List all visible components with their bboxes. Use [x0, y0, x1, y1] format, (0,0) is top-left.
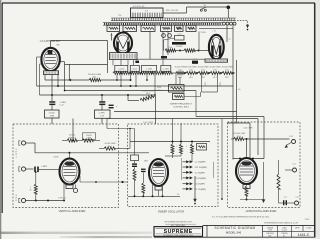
svg-text:5Y3: 5Y3: [205, 82, 207, 85]
V4 stem: [66, 185, 73, 189]
svg-text:C-2: C-2: [194, 58, 197, 60]
svg-text:50,000 OHM: 50,000 OHM: [175, 67, 186, 69]
wire y28.7: [199, 28, 233, 30]
wire between box1 box2: [80, 181, 128, 183]
svg-text:C-3: C-3: [284, 197, 287, 199]
svg-text:50,000 OHM: 50,000 OHM: [105, 143, 116, 145]
tube V6 6L6: [236, 158, 257, 184]
wire P1 down: [51, 118, 53, 124]
svg-text:CHECKED: CHECKED: [266, 233, 275, 235]
resistor R14: [34, 184, 37, 194]
svg-text:C-19: C-19: [100, 116, 104, 118]
sweep control box B1: [169, 85, 185, 93]
wire J1: [26, 142, 35, 144]
border frame top: [2, 2, 315, 4]
wire drops into resistor row: [172, 119, 174, 145]
wire vert x233: [232, 25, 234, 158]
ground G2: [263, 162, 265, 200]
jack circle below V4: [73, 188, 77, 192]
wire R3 right: [154, 95, 156, 97]
scan bottom streak 1: [0, 232, 152, 234]
scan left dark edge: [0, 0, 1, 239]
wire y128.5: [107, 128, 135, 130]
antenna arrowhead: [246, 25, 249, 29]
capacitor C20: [34, 167, 36, 173]
toggle switch SW1: [200, 9, 202, 11]
svg-text:C7 25(MF): C7 25(MF): [195, 172, 205, 174]
dashed box vertical amplifier: [13, 124, 119, 208]
svg-text:SWEEP FREQUENCY: SWEEP FREQUENCY: [170, 103, 193, 105]
transformer T1: [131, 8, 164, 18]
svg-text:1,500: 1,500: [168, 47, 173, 49]
wire y123: [227, 122, 250, 124]
wire to R3: [128, 100, 139, 102]
resistor R16: [180, 144, 183, 154]
wire V1 left pin2 to bus: [40, 63, 43, 65]
trimmer box TB3: [141, 25, 155, 31]
svg-text:2: 2: [176, 146, 177, 148]
svg-text:1 W.: 1 W.: [201, 69, 205, 71]
box C-15: [175, 36, 185, 41]
wire v x107.5: [107, 41, 109, 74]
title block: [154, 225, 315, 237]
capacitor C28: [141, 169, 146, 170]
svg-text:HORIZONTAL AMPLIFIER: HORIZONTAL AMPLIFIER: [246, 209, 277, 213]
capacitor C31: [283, 200, 284, 205]
binding post J1: [21, 141, 25, 145]
wires under resistor row: [172, 154, 174, 159]
wire V5 stem down: [158, 190, 160, 196]
svg-text:25,000 OHM: 25,000 OHM: [186, 67, 197, 69]
wire y116: [196, 116, 264, 118]
svg-text:OHM: OHM: [49, 115, 54, 117]
V5 stem: [155, 186, 162, 190]
resistor R12 boxed label: [83, 133, 96, 140]
svg-text:INSTRUMENTS CORP. GREENWOOD, M: INSTRUMENTS CORP. GREENWOOD, MISS.: [163, 235, 194, 237]
svg-text:PRI.: PRI.: [118, 15, 122, 17]
scan bottom streak 2: [60, 236, 152, 238]
svg-text:+ 75: + 75: [212, 31, 216, 33]
wire transformer to switch: [163, 12, 187, 14]
svg-text:5Y3G: 5Y3G: [200, 32, 206, 34]
V6 stem: [243, 185, 250, 189]
resistor R3 diagonal: [140, 95, 154, 102]
trimmer box TB4: [161, 25, 172, 31]
wire to box C-15: [164, 38, 175, 40]
wire y118: [108, 118, 258, 120]
svg-text:C-30 1 MFD: C-30 1 MFD: [243, 128, 253, 130]
wire J3: [26, 200, 64, 202]
svg-text:C11 250(MF): C11 250(MF): [195, 167, 207, 169]
svg-text:W-9: W-9: [189, 77, 192, 79]
wire drops under left divider: [116, 75, 118, 81]
svg-text:SWEEP OSCILLATOR: SWEEP OSCILLATOR: [158, 209, 184, 213]
wire v x69.3: [68, 64, 70, 79]
resistor R17: [191, 144, 194, 154]
junction dots on buses: [51, 94, 53, 96]
wire drop x180: [179, 77, 181, 85]
wire V1 pin7 down: [57, 75, 59, 86]
tube V5 884: [149, 159, 168, 186]
svg-text:CONTROL SW-2: CONTROL SW-2: [173, 107, 190, 109]
resistor R7: [186, 67, 197, 79]
terminal strip bar A: [111, 18, 236, 21]
wire J2 to C20: [26, 168, 34, 170]
wires saddle to divider: [112, 60, 114, 66]
binding post J3: [21, 198, 25, 202]
svg-text:C- 250(MF): C- 250(MF): [195, 162, 206, 164]
wire y64.4 to V2 column: [65, 63, 108, 65]
title block dividers: [207, 225, 315, 237]
component label boxes under V2: [115, 65, 128, 71]
wire bus y90.5: [65, 90, 196, 92]
trimmer box TB2: [123, 25, 137, 31]
capacitor C27: [132, 163, 137, 164]
boxed resistor R18: [197, 144, 207, 151]
wire test point right vertical: [213, 162, 215, 178]
svg-text:4 MEG: 4 MEG: [156, 90, 162, 92]
svg-text:C-1463: C-1463: [118, 69, 124, 71]
dashed box horizontal amplifier: [228, 122, 301, 208]
resistor R23: [278, 160, 280, 174]
svg-text:C-24 .1 MFD: C-24 .1 MFD: [143, 122, 154, 124]
V1 saddle: [44, 71, 59, 75]
capacitor C12: [49, 95, 66, 110]
dashed box sweep oscillator: [128, 124, 219, 207]
wire y111: [114, 111, 237, 113]
resistor R21: [231, 138, 234, 140]
tube V2: [114, 33, 132, 54]
svg-text:17-41: 17-41: [305, 219, 310, 221]
svg-text:C-12: C-12: [60, 105, 64, 107]
svg-text:S-1: S-1: [204, 5, 207, 7]
wire V2 top-left stub: [111, 33, 113, 41]
svg-text:10,000 OHM: 10,000 OHM: [198, 67, 209, 69]
V5 top element: [153, 162, 163, 166]
svg-text:6 PLUG: 6 PLUG: [58, 198, 66, 200]
small caps column x163: [162, 31, 164, 65]
test point arrow list: [183, 160, 208, 191]
bus wire y73 right: [172, 72, 176, 74]
pot box P2: [95, 110, 111, 118]
wire y158.5: [233, 158, 264, 160]
svg-text:W-12: W-12: [133, 69, 137, 71]
svg-text:1 W.: 1 W.: [178, 69, 182, 71]
svg-text:W-7: W-7: [213, 77, 216, 79]
pot box P1: [45, 110, 60, 118]
wire x128: [127, 95, 129, 101]
wire P2 down: [101, 118, 103, 124]
sweep control box B2: [173, 94, 185, 100]
svg-text:50,000: 50,000: [86, 135, 92, 137]
svg-text:.5 MFD: .5 MFD: [41, 166, 48, 168]
wire V1 right L: [60, 61, 65, 63]
wires trimmer to V2: [118, 31, 120, 33]
connector plug circles: [223, 22, 237, 25]
supreme logo box: [154, 227, 203, 237]
svg-text:C-8: C-8: [295, 197, 298, 199]
wire V1 left pin to bus: [37, 56, 43, 58]
svg-text:7-1: 7-1: [177, 194, 180, 196]
trimmer box TB1: [107, 25, 120, 31]
wire drop x176: [175, 73, 177, 85]
wire v x107: [106, 119, 108, 129]
U loop wires: [201, 73, 203, 92]
capacitor C13: [99, 95, 105, 110]
tube V3 saddle: [205, 59, 228, 62]
tube V2 saddle: [110, 53, 138, 60]
svg-text:VERTICAL AMPLIFIER: VERTICAL AMPLIFIER: [59, 209, 86, 213]
svg-text:75: 75: [229, 39, 231, 41]
resistor R9: [210, 67, 221, 79]
svg-text:THE SUPREME INSTRUMENTS CORP: THE SUPREME INSTRUMENTS CORP: [164, 222, 192, 224]
svg-text:J.F.M: J.F.M: [268, 230, 272, 232]
wire vert x264: [263, 117, 265, 159]
svg-text:SUPREME: SUPREME: [164, 229, 193, 235]
svg-text:25,000 OHM: 25,000 OHM: [142, 91, 154, 93]
wire long y152.5: [35, 152, 149, 154]
wire V1 pin5 down: [51, 75, 53, 95]
dashed lead to antenna arrow: [237, 20, 248, 25]
capacitor C14: [109, 105, 114, 106]
svg-text:8-4-39: 8-4-39: [282, 230, 287, 232]
wire V6 top: [246, 139, 248, 158]
svg-text:1441-C: 1441-C: [298, 233, 310, 237]
svg-text:C-1463: C-1463: [146, 69, 152, 71]
wire between box2 box3: [221, 119, 223, 200]
wire bus y95: [40, 94, 156, 96]
wire V4 top stub: [69, 153, 71, 159]
border frame left: [1, 3, 3, 213]
svg-text:50,000 OHM: 50,000 OHM: [210, 67, 221, 69]
resistor R8: [198, 67, 209, 79]
tube V1 906 cathode-ray: [41, 48, 60, 71]
svg-text:W.B.: W.B.: [268, 235, 272, 237]
wire y196: [128, 195, 180, 197]
svg-text:C5 250(MF): C5 250(MF): [195, 178, 206, 180]
jack J5: [293, 168, 297, 172]
resistor R19: [133, 169, 136, 180]
ground G1: [194, 176, 196, 199]
wire y199.5: [240, 199, 264, 201]
svg-text:C-1465: C-1465: [163, 69, 169, 71]
left column box C-26: [131, 155, 139, 161]
svg-text:MODEL 546: MODEL 546: [226, 230, 242, 234]
wire bus y80: [45, 79, 89, 81]
resistor R13: [104, 147, 115, 150]
svg-text:OHM W-3: OHM W-3: [68, 137, 76, 139]
svg-text:W-10: W-10: [237, 136, 241, 138]
svg-text:50,000: 50,000: [69, 135, 75, 137]
svg-text:1 W.: 1 W.: [225, 69, 229, 71]
svg-text:S-2 110V. 60~: S-2 110V. 60~: [133, 6, 146, 8]
svg-text:SCHEMATIC DIAGRAM: SCHEMATIC DIAGRAM: [214, 226, 255, 230]
wire C20 to V4: [39, 168, 60, 170]
wire V2 left vertical: [149, 31, 151, 59]
tube V3 5Y3G: [209, 35, 224, 59]
trimmer box TB5: [175, 25, 184, 31]
wire arrow stub vertical: [181, 158, 183, 180]
wire vert x250: [249, 123, 251, 160]
resistor R2 250k: [89, 78, 101, 81]
wire bus y86: [37, 85, 234, 87]
svg-text:1 W.: 1 W.: [189, 69, 193, 71]
trimmer box TB6: [186, 25, 196, 31]
V1 grid cap square: [48, 50, 53, 54]
svg-text:4 MFD: 4 MFD: [99, 112, 105, 114]
terminal strip bar B: [103, 23, 223, 26]
resistor R5: [184, 49, 195, 52]
wire vert x227: [226, 25, 228, 42]
binding post J2: [21, 167, 25, 171]
bus junction dots: [184, 72, 186, 74]
svg-text:C-15: C-15: [177, 34, 181, 36]
V6 top element: [241, 161, 251, 165]
wire vert x196: [195, 91, 197, 117]
voltage divider zigzag run left: [113, 72, 172, 75]
capacitor C3: [192, 61, 198, 64]
wire down to R14: [35, 172, 37, 184]
V4 top element: [65, 162, 75, 166]
svg-text:SW-1 ON-OFF: SW-1 ON-OFF: [166, 10, 179, 12]
svg-text:1 W.: 1 W.: [213, 69, 217, 71]
svg-text:F-1 TO F-55 ARE WIRING REFERE: F-1 TO F-55 ARE WIRING REFERENCE NOTES A…: [212, 215, 270, 218]
svg-text:C3 25(MF): C3 25(MF): [195, 184, 205, 186]
wire v x130: [129, 129, 131, 149]
wires sweep controls: [184, 96, 201, 98]
bus y141.5: [130, 141, 210, 143]
wires V5 bottom: [152, 185, 154, 197]
svg-text:C1 110(MF): C1 110(MF): [195, 189, 206, 191]
wire v x73: [72, 119, 74, 141]
svg-text:250,000 OHM: 250,000 OHM: [233, 133, 245, 135]
wire V1 top to V2: [50, 41, 52, 48]
svg-text:W-1: W-1: [108, 146, 111, 148]
wire V1 pin3 down: [44, 75, 46, 80]
resistor R20: [142, 183, 145, 193]
svg-text:50,000: 50,000: [49, 112, 55, 114]
wire vert x236.5 B+: [236, 60, 238, 123]
capacitor 25MFD blob: [172, 42, 186, 45]
resistor R4: [165, 49, 176, 52]
border frame right: [314, 3, 316, 238]
jack J4 with arrow: [292, 140, 296, 144]
svg-text:SUPERSEDES DWG DATED 6-17-39: SUPERSEDES DWG DATED 6-17-39: [264, 221, 299, 224]
svg-text:C-9: C-9: [292, 164, 295, 166]
capacitor pair under TB4: [162, 34, 166, 38]
svg-text:W-6: W-6: [146, 93, 149, 95]
wire V2 saddle to V3 saddle: [137, 58, 205, 60]
svg-text:25,000 OHM: 25,000 OHM: [222, 67, 233, 69]
svg-text:25 MFD: 25 MFD: [176, 46, 183, 48]
node A junction: [227, 6, 231, 10]
arrowhead on y81: [68, 79, 71, 82]
tube V4 6J5G: [59, 159, 79, 185]
svg-text:5Y3: 5Y3: [220, 82, 222, 85]
jack J6: [295, 201, 299, 205]
svg-text:W-4: W-4: [93, 77, 96, 79]
capacitor C2: [135, 61, 139, 63]
svg-text:C-11: C-11: [289, 136, 293, 138]
resistor R10: [222, 67, 233, 79]
svg-text:6J5G: 6J5G: [54, 157, 59, 159]
svg-text:W-5: W-5: [225, 77, 228, 79]
svg-text:R-30: R-30: [157, 87, 161, 89]
resistor R22: [246, 184, 248, 186]
wire node A down: [227, 7, 229, 18]
resistor R11: [62, 140, 67, 142]
resistor R6: [175, 67, 186, 79]
svg-text:1: 1: [186, 146, 187, 148]
wire vert x258: [257, 119, 259, 156]
resistor R15: [171, 144, 174, 154]
wires V4 bottom: [63, 184, 65, 201]
wire v x199: [198, 31, 200, 50]
wire R5 to V3: [195, 50, 209, 52]
svg-text:250,000 OHM: 250,000 OHM: [88, 74, 101, 76]
scan right margin: [316, 0, 320, 239]
